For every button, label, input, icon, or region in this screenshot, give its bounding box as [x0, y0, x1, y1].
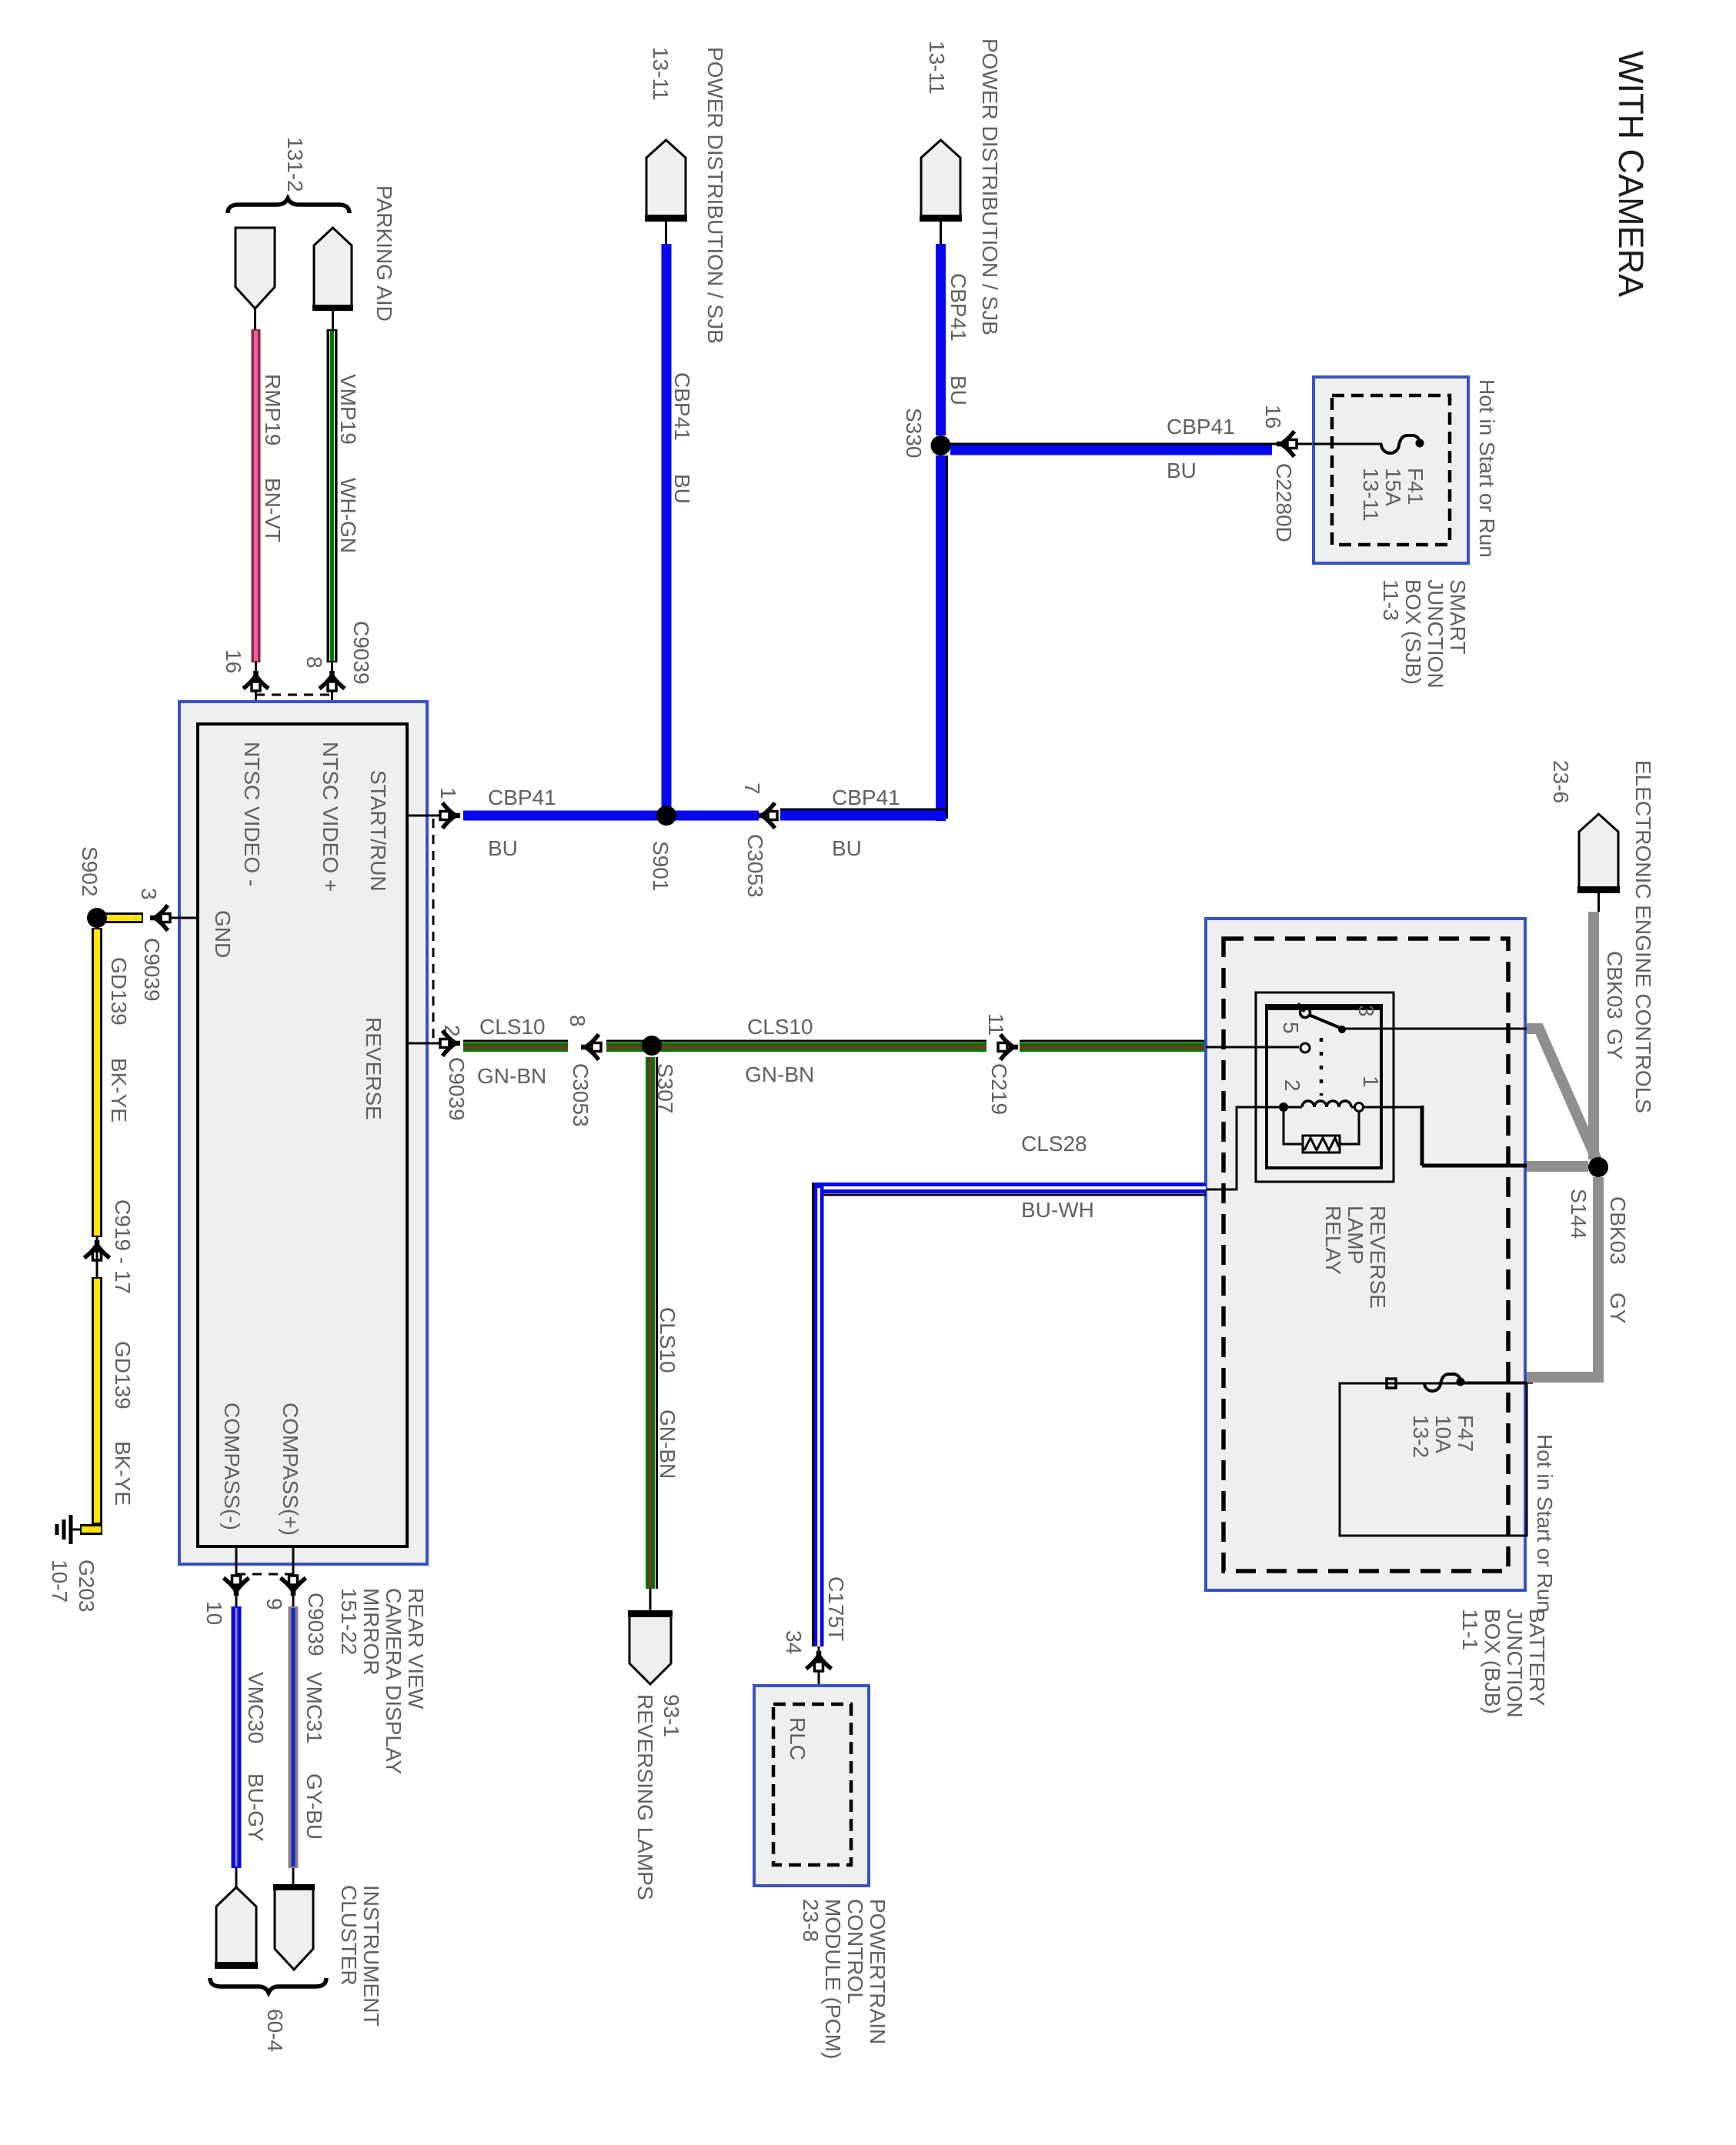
relay inner rect: [1267, 1007, 1381, 1168]
svg-text:BOX (SJB): BOX (SJB): [1401, 579, 1425, 685]
battery junction box BJB: [1206, 919, 1525, 1590]
splice S901: [656, 806, 676, 826]
wire S902 to pin3 (yellow): [105, 912, 143, 923]
wire GD139 BK-YE lower (yellow): [92, 1277, 102, 1524]
svg-text:VMP19: VMP19: [336, 374, 360, 445]
connector pentagon reversing lamps: [629, 1613, 671, 1684]
svg-text:2: 2: [1280, 1079, 1304, 1092]
wire gray pin1 to S144: [1527, 1161, 1588, 1172]
svg-text:GN-BN: GN-BN: [745, 1062, 814, 1086]
svg-text:C9039: C9039: [349, 621, 373, 685]
svg-text:POWER DISTRIBUTION / SJB: POWER DISTRIBUTION / SJB: [703, 47, 727, 344]
svg-text:13-11: 13-11: [649, 47, 673, 101]
pin2 wire REVERSE: [407, 1042, 456, 1045]
svg-text:REVERSE: REVERSE: [1366, 1206, 1390, 1309]
svg-text:60-4: 60-4: [263, 2009, 287, 2052]
svg-text:Hot in Start or Run: Hot in Start or Run: [1533, 1434, 1557, 1613]
svg-text:G203: G203: [75, 1560, 98, 1613]
svg-text:SMART: SMART: [1446, 579, 1470, 655]
wire VMP19 WH-GN (white-green): [327, 329, 338, 662]
wire F47 to box edge: [1464, 1382, 1533, 1384]
svg-text:WITH CAMERA: WITH CAMERA: [1611, 51, 1651, 297]
connector pentagon instrument cluster A: [216, 1887, 256, 1965]
svg-text:CBP41: CBP41: [832, 786, 900, 809]
wire stub: [332, 311, 334, 329]
svg-text:131-2: 131-2: [283, 137, 307, 192]
svg-text:BU-GY: BU-GY: [244, 1773, 268, 1842]
BJB dashed rect: [1224, 939, 1508, 1571]
svg-text:8: 8: [566, 1015, 589, 1027]
fuse F47: [1387, 1379, 1396, 1388]
wire stub: [254, 309, 256, 329]
svg-text:COMPASS(-): COMPASS(-): [220, 1403, 244, 1530]
wire CBP41 S901 to C3053: [666, 811, 759, 821]
relay coil terminal 1: [1355, 1103, 1364, 1112]
stub to reversing lamps: [649, 1589, 652, 1614]
relay switch blade: [1309, 1015, 1342, 1029]
svg-text:JUNCTION: JUNCTION: [1503, 1609, 1527, 1718]
connector arrow C3053 pin7: [757, 813, 766, 819]
wire stub: [665, 222, 667, 244]
svg-text:8: 8: [302, 656, 326, 669]
wire CBK03 GY vertical to S144 (gray): [1588, 912, 1599, 1159]
svg-text:CBK03: CBK03: [1603, 951, 1627, 1019]
wire VMC30 BU-GY (blue): [232, 1606, 242, 1868]
resistor rect: [1303, 1136, 1340, 1153]
svg-text:NTSC VIDEO -: NTSC VIDEO -: [240, 742, 264, 886]
svg-text:ELECTRONIC ENGINE CONTROLS: ELECTRONIC ENGINE CONTROLS: [1631, 760, 1655, 1113]
svg-text:16: 16: [222, 649, 245, 673]
wire gray diagonal pin3 to S144: [1527, 1029, 1598, 1163]
connector pentagon instrument cluster B: [275, 1886, 313, 1970]
wire inside SJB to fuse: [1314, 443, 1382, 445]
svg-text:C919 - 17: C919 - 17: [111, 1199, 135, 1294]
connector arrow pin10: [234, 1586, 239, 1596]
svg-text:1: 1: [436, 787, 460, 799]
relay switch pivot: [1300, 1008, 1310, 1018]
svg-text:11-1: 11-1: [1458, 1609, 1482, 1650]
dashed connector C9039 bottom: [236, 1573, 293, 1576]
wire stub: [1597, 893, 1600, 912]
svg-text:VMC30: VMC30: [244, 1672, 268, 1743]
PCM dashed rect: [773, 1704, 851, 1865]
svg-text:C9039: C9039: [304, 1593, 328, 1656]
relay coil terminal 2: [1279, 1103, 1288, 1112]
svg-text:93-1: 93-1: [659, 1694, 683, 1737]
resistor parallel wiring: [1284, 1112, 1359, 1144]
SJB dashed rect: [1332, 395, 1450, 545]
svg-text:VMC31: VMC31: [302, 1672, 326, 1743]
wire CLS10 into relay pin5: [1206, 1046, 1299, 1049]
connector pentagon parking-aid VMP19: [314, 228, 352, 308]
pin3 wire GND: [151, 917, 198, 919]
svg-text:3: 3: [137, 888, 161, 900]
svg-text:S901: S901: [649, 841, 673, 891]
svg-text:REVERSE: REVERSE: [362, 1017, 386, 1120]
svg-text:Hot in Start or Run: Hot in Start or Run: [1475, 379, 1499, 558]
wire corner to ground: [80, 1524, 102, 1535]
pin1 wire to S144: [1364, 1106, 1422, 1109]
wire CBP41 horizontal C3053 to corner: [780, 811, 946, 821]
pin 5 contact: [1300, 1043, 1310, 1052]
svg-text:JUNCTION: JUNCTION: [1424, 579, 1447, 689]
connector arrow C2280D pin16: [1277, 442, 1286, 447]
svg-text:CLS10: CLS10: [656, 1307, 679, 1373]
wire CLS10 C3053 to S307: [606, 1041, 643, 1047]
brace 60-4: [210, 1978, 326, 1993]
svg-text:RELAY: RELAY: [1321, 1206, 1345, 1275]
connector arrow C9039 pin8: [329, 671, 335, 680]
svg-text:151-22: 151-22: [337, 1588, 361, 1655]
svg-text:CBP41: CBP41: [488, 786, 556, 809]
mirror inner rect: [198, 724, 407, 1546]
svg-text:C9039: C9039: [140, 938, 164, 1002]
svg-text:PARKING AID: PARKING AID: [372, 185, 396, 322]
connector arrow C3053 pin8: [581, 1045, 590, 1050]
rear view camera display mirror box: [179, 702, 427, 1564]
svg-text:CLS10: CLS10: [479, 1015, 546, 1039]
svg-text:CBP41: CBP41: [1167, 415, 1235, 439]
svg-text:5: 5: [1279, 1022, 1303, 1034]
svg-text:BATTERY: BATTERY: [1525, 1609, 1549, 1706]
svg-text:BU: BU: [832, 836, 862, 860]
svg-text:CLUSTER: CLUSTER: [337, 1885, 361, 1986]
wire to pin16: [255, 662, 257, 724]
connector arrow pin9: [291, 1586, 296, 1596]
wire CBK03 GY S144 down to F47 (gray): [1527, 1177, 1598, 1377]
svg-text:BOX (BJB): BOX (BJB): [1481, 1609, 1504, 1714]
svg-text:BK-YE: BK-YE: [111, 1441, 135, 1506]
svg-text:C3053: C3053: [569, 1063, 593, 1127]
wire RMP19 BN-VT (red): [252, 329, 261, 662]
svg-text:GND: GND: [211, 910, 235, 958]
svg-text:GN-BN: GN-BN: [477, 1064, 546, 1088]
wire CLS10 C219 to BJB: [1020, 1041, 1206, 1047]
pin1 wire START/RUN: [407, 815, 456, 817]
connector arrow pin1: [451, 813, 460, 819]
powertrain control module PCM box: [754, 1686, 869, 1886]
svg-text:BU: BU: [488, 836, 518, 860]
svg-text:CONTROL: CONTROL: [843, 1899, 867, 2004]
svg-text:CBP41: CBP41: [946, 273, 970, 342]
svg-text:S330: S330: [902, 408, 926, 458]
compass(+) pin9 wire: [292, 1546, 295, 1606]
svg-text:POWERTRAIN: POWERTRAIN: [866, 1899, 890, 2044]
svg-text:BU: BU: [670, 474, 694, 504]
connector pentagon power distribution left: [646, 140, 686, 218]
svg-text:GN-BN: GN-BN: [656, 1409, 679, 1479]
svg-text:C9039: C9039: [445, 1057, 469, 1121]
connector arrow C175T pin34: [816, 1651, 822, 1660]
svg-text:COMPASS(+): COMPASS(+): [279, 1403, 302, 1536]
wire CLS28 BU-WH horizontal (blue-white): [814, 1188, 1206, 1195]
svg-text:C219: C219: [987, 1063, 1011, 1115]
wire to pin8: [331, 662, 333, 724]
wire GD139 BK-YE upper (yellow): [92, 928, 102, 1237]
svg-text:11-3: 11-3: [1379, 579, 1403, 621]
wire stub: [940, 222, 942, 244]
svg-text:34: 34: [782, 1630, 806, 1654]
svg-text:10A: 10A: [1431, 1415, 1455, 1453]
connector pentagon electronic engine controls: [1579, 814, 1618, 889]
wire CBP41 BU vertical (blue) to S330: [936, 244, 946, 435]
svg-text:MODULE (PCM): MODULE (PCM): [821, 1899, 845, 2059]
svg-text:POWER DISTRIBUTION / SJB: POWER DISTRIBUTION / SJB: [978, 38, 1002, 335]
svg-text:13-11: 13-11: [1359, 468, 1383, 522]
svg-text:3: 3: [1354, 1005, 1378, 1017]
svg-text:BK-YE: BK-YE: [107, 1058, 131, 1123]
svg-text:INSTRUMENT: INSTRUMENT: [359, 1885, 383, 2027]
svg-text:S144: S144: [1567, 1189, 1591, 1239]
svg-text:GY: GY: [1606, 1293, 1630, 1324]
svg-text:BN-VT: BN-VT: [261, 478, 285, 542]
svg-text:BU: BU: [1167, 459, 1197, 482]
wire CBP41 S330 down to corner (blue with black line): [936, 455, 946, 821]
svg-text:REVERSING LAMPS: REVERSING LAMPS: [633, 1694, 657, 1900]
connector pentagon power distribution right: [921, 140, 960, 218]
ground symbol G203: [71, 1529, 80, 1531]
wire CBP41 BU vertical (blue) to S901: [662, 244, 672, 808]
svg-text:CLS10: CLS10: [747, 1015, 813, 1039]
wire stub to C175T: [818, 1646, 820, 1704]
svg-text:START/RUN: START/RUN: [366, 770, 390, 892]
wire VMC31 GY-BU (gray-blue): [289, 1606, 299, 1868]
connector arrow pin3: [150, 916, 159, 921]
svg-text:CLS28: CLS28: [1021, 1132, 1087, 1156]
svg-text:BU: BU: [946, 375, 970, 405]
relay actuator dotted link: [1320, 1038, 1324, 1096]
svg-text:GY: GY: [1603, 1029, 1627, 1060]
wire into SJB: [1300, 443, 1382, 445]
compass(-) pin10 wire: [235, 1546, 238, 1606]
fuse F41 15A: [1381, 435, 1420, 453]
svg-text:NTSC VIDEO +: NTSC VIDEO +: [319, 742, 342, 892]
pin3 wire to box edge: [1342, 1028, 1527, 1030]
svg-text:13-11: 13-11: [925, 41, 949, 95]
stub to pentagon A: [235, 1868, 238, 1889]
smart junction box SJB: [1314, 377, 1468, 563]
svg-text:GD139: GD139: [111, 1341, 135, 1409]
fuse F47 cell rect: [1340, 1383, 1527, 1536]
svg-text:CBP41: CBP41: [670, 372, 694, 441]
svg-text:S902: S902: [78, 846, 102, 896]
connector arrow C219 pin11: [1009, 1045, 1018, 1050]
wire CLS10 GN-BN pin2 to C3053 (green-brown): [463, 1041, 568, 1047]
svg-text:10: 10: [202, 1601, 226, 1625]
svg-text:23-6: 23-6: [1549, 760, 1573, 803]
svg-text:C2280D: C2280D: [1272, 463, 1296, 542]
svg-text:RMP19: RMP19: [261, 374, 285, 445]
svg-text:F47: F47: [1454, 1415, 1477, 1452]
connector arrow C9039 pin16: [253, 671, 259, 680]
svg-text:MIRROR: MIRROR: [359, 1588, 383, 1676]
svg-text:13-2: 13-2: [1409, 1415, 1433, 1458]
svg-text:16: 16: [1261, 405, 1285, 429]
svg-text:RLC: RLC: [786, 1717, 810, 1760]
svg-text:1: 1: [1359, 1076, 1383, 1088]
dashed connector line C9039: [255, 694, 332, 696]
pin2 wire to CLS28: [1206, 1107, 1279, 1189]
connector pentagon parking-aid RMP19: [235, 228, 275, 309]
svg-text:GD139: GD139: [107, 957, 131, 1026]
svg-text:F41: F41: [1404, 468, 1427, 505]
svg-text:11: 11: [984, 1013, 1008, 1036]
svg-text:CBK03: CBK03: [1606, 1196, 1630, 1265]
svg-text:10-7: 10-7: [48, 1560, 72, 1603]
svg-text:23-8: 23-8: [799, 1899, 823, 1942]
svg-text:REAR VIEW: REAR VIEW: [404, 1588, 428, 1710]
wire CLS28 BU-WH vertical (blue-white): [813, 1183, 820, 1646]
dashed connector C9039 vertical: [432, 819, 435, 1040]
svg-text:GY-BU: GY-BU: [302, 1773, 326, 1840]
svg-text:7: 7: [740, 782, 764, 795]
brace 131-2: [228, 198, 349, 213]
wire CBP41 pin1 to S901: [463, 811, 666, 821]
wire CLS10 S307 to C219: [660, 1041, 987, 1047]
stub to pentagon B: [292, 1868, 295, 1889]
connector arrow C919 - 17: [95, 1240, 100, 1249]
svg-text:BU-WH: BU-WH: [1021, 1198, 1094, 1222]
svg-text:C175T: C175T: [824, 1576, 848, 1641]
connector arrow pin2: [451, 1041, 460, 1046]
splice S307: [642, 1036, 662, 1056]
resistor zigzag: [1304, 1138, 1339, 1150]
relay outer rect: [1256, 992, 1394, 1182]
svg-text:15A: 15A: [1381, 468, 1405, 506]
relay coil: [1284, 1106, 1302, 1109]
splice S330: [931, 435, 951, 455]
svg-text:LAMP: LAMP: [1344, 1206, 1367, 1264]
svg-text:C3053: C3053: [743, 834, 767, 898]
wire CBP41 S330 to C2280D: [950, 445, 1272, 455]
svg-text:9: 9: [262, 1598, 286, 1610]
splice S144: [1588, 1157, 1608, 1177]
splice S902: [87, 908, 107, 928]
wire CLS10 vertical S307 down (green-brown): [650, 1057, 657, 1589]
svg-text:WH-GN: WH-GN: [336, 478, 360, 553]
svg-text:CAMERA DISPLAY: CAMERA DISPLAY: [382, 1588, 406, 1775]
